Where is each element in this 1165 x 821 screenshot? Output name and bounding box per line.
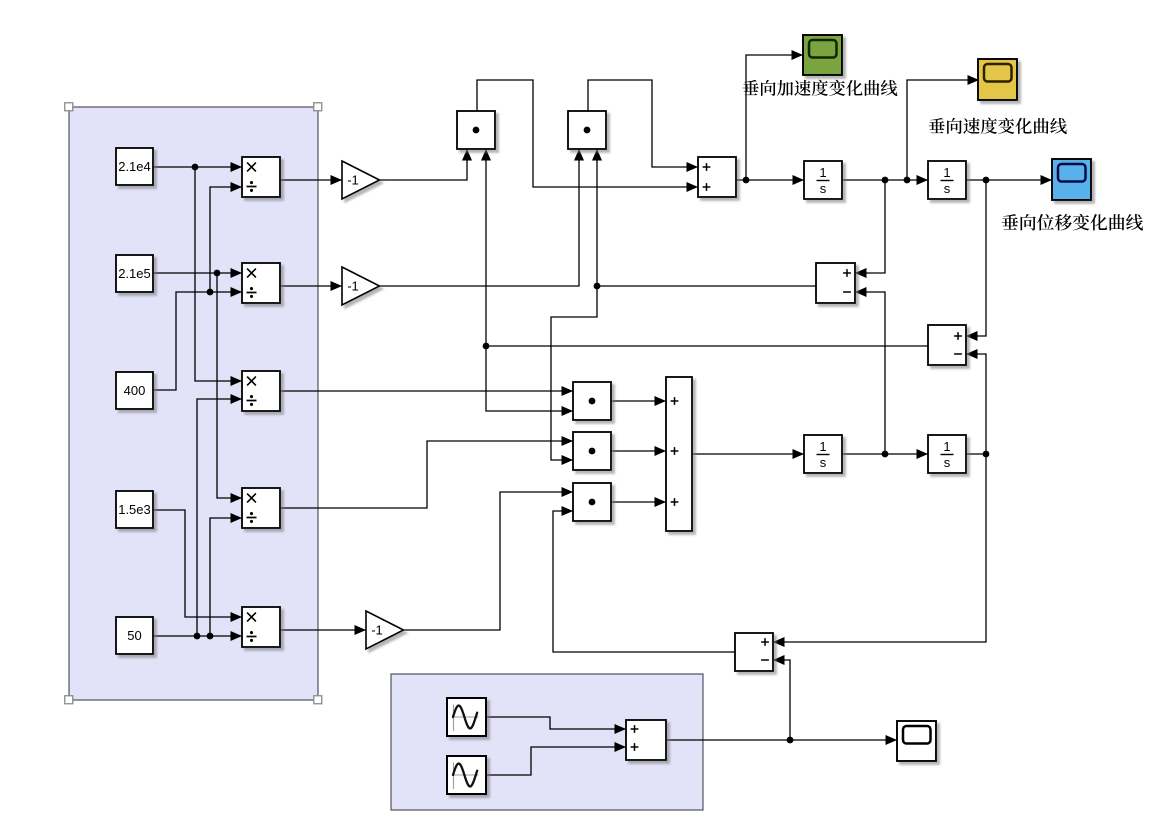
- svg-text:50: 50: [127, 628, 141, 643]
- svg-text:400: 400: [124, 383, 146, 398]
- svg-text:-1: -1: [347, 173, 359, 188]
- svg-text:1: 1: [943, 439, 950, 454]
- svg-text:1: 1: [819, 439, 826, 454]
- svg-text:s: s: [944, 181, 951, 196]
- svg-text:1.5e3: 1.5e3: [118, 502, 151, 517]
- svg-text:s: s: [820, 455, 827, 470]
- svg-text:2.1e5: 2.1e5: [118, 266, 151, 281]
- svg-text:2.1e4: 2.1e4: [118, 159, 151, 174]
- svg-text:-1: -1: [371, 623, 383, 638]
- svg-text:1: 1: [943, 165, 950, 180]
- svg-text:-1: -1: [347, 279, 359, 294]
- svg-text:1: 1: [819, 165, 826, 180]
- svg-text:s: s: [944, 455, 951, 470]
- svg-text:s: s: [820, 181, 827, 196]
